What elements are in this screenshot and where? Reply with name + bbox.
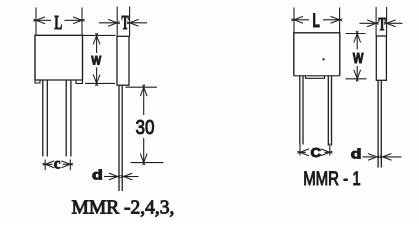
lead 1 (MMR-1 front left lead) [300, 76, 303, 145]
label L [54, 13, 62, 34]
svg-text:30: 30 [136, 116, 155, 139]
svg-text:c: c [54, 156, 61, 172]
svg-text:MMR -2,4,3,: MMR -2,4,3, [72, 198, 175, 219]
label L (MMR-1) [312, 12, 320, 32]
dimension L arrows (MMR-1) [291, 16, 342, 23]
svg-text:C: C [311, 146, 322, 160]
svg-text:T: T [121, 13, 128, 34]
label d (MMR-1) [351, 147, 362, 162]
svg-text:W: W [353, 49, 364, 66]
lead 1 (front view left lead) [43, 80, 48, 157]
lead side view (MMR-1) [378, 80, 381, 167]
capacitor body side view (MMR-1) [376, 36, 386, 80]
label 30 [136, 116, 155, 139]
dimension W arrows (MMR-1) [354, 31, 361, 82]
svg-text:L: L [312, 12, 320, 32]
dimension c ticks [45, 160, 70, 171]
label W [91, 55, 101, 68]
svg-text:L: L [54, 13, 62, 34]
label T [121, 13, 128, 34]
dimension L extension lines (MMR-1) [294, 8, 340, 33]
svg-text:d: d [92, 168, 103, 183]
svg-text:T: T [378, 16, 386, 35]
dimension d arrows (MMR-1) [363, 154, 402, 161]
label W (MMR-1) [353, 49, 364, 66]
capacitor body front view (MMR-2,4,3) [35, 35, 83, 83]
dimension 30 extension lines [126, 87, 164, 162]
dimension c arrows [43, 161, 73, 168]
caption MMR -2,4,3, [72, 198, 175, 219]
ink speck (scan artifact) [322, 58, 324, 60]
lead 2 (front view right lead) [66, 80, 71, 157]
label T (MMR-1) [378, 16, 386, 35]
dimension C arrows (MMR-1) [297, 149, 332, 156]
dimension 30 arrows and line [140, 85, 147, 166]
caption MMR - 1 [303, 169, 361, 190]
dimension T extension lines (MMR-1) [376, 7, 387, 36]
dimension T extension lines [117, 7, 129, 37]
label d (left drawing) [92, 168, 103, 183]
label C (MMR-1) [311, 146, 322, 160]
dimension L arrows and line [33, 17, 84, 24]
dimension W arrows and line [93, 33, 100, 86]
svg-text:W: W [91, 55, 101, 68]
svg-text:MMR - 1: MMR - 1 [303, 169, 361, 190]
lead side view [119, 85, 122, 191]
dimension L extension lines [36, 8, 82, 36]
svg-text:d: d [351, 147, 362, 162]
label c [54, 156, 61, 172]
dimension T arrows (MMR-1) [360, 20, 403, 27]
dimension W extension lines [83, 35, 116, 83]
dimension W extension lines (MMR-1) [346, 34, 367, 79]
capacitor body front view (MMR-1) [294, 33, 340, 79]
dimension T arrows [99, 19, 147, 26]
capacitor body side view (MMR-2,4,3) [117, 36, 129, 85]
dimension d arrows (left drawing) [104, 173, 139, 180]
lead 2 (MMR-1 front right lead) [328, 76, 331, 146]
dimension C ticks (MMR-1) [300, 144, 330, 156]
